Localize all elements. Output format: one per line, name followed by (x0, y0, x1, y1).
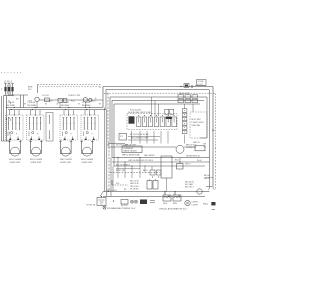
svg-text:OVEN LT: OVEN LT (186, 147, 196, 149)
svg-text:BK-2: BK-2 (175, 160, 179, 162)
svg-text:MROL-BK/W 5GA: MROL-BK/W 5GA (122, 154, 140, 157)
svg-text:BR-3: BR-3 (204, 178, 210, 180)
svg-text:W: W (99, 104, 101, 106)
svg-text:BU-12 W/BK-6: BU-12 W/BK-6 (116, 164, 131, 166)
svg-text:DLB: DLB (163, 203, 168, 205)
svg-text:CLOCK: CLOCK (42, 95, 49, 97)
svg-text:SENSOR R-31: SENSOR R-31 (186, 156, 201, 158)
svg-text:HOT SFC: HOT SFC (192, 119, 202, 121)
svg-text:W-2 R-31 BK: W-2 R-31 BK (116, 144, 129, 146)
svg-text:R-14 W-6 BK: R-14 W-6 BK (130, 109, 142, 111)
svg-text:LOCK: LOCK (198, 84, 204, 86)
svg-text:SURF UNIT: SURF UNIT (81, 162, 93, 164)
svg-text:LATCH SW: LATCH SW (179, 92, 190, 95)
svg-text:BK W R: BK W R (121, 205, 128, 207)
svg-text:W: W (57, 104, 59, 106)
svg-text:240V BK: 240V BK (192, 125, 201, 127)
svg-text:P/N MANUFACTURING 74-X: P/N MANUFACTURING 74-X (107, 207, 136, 210)
svg-text:NOTE 1A: NOTE 1A (87, 203, 96, 206)
svg-text:GRY BK/W: GRY BK/W (144, 155, 155, 157)
svg-text:SURF UNIT: SURF UNIT (60, 162, 72, 164)
svg-text:L1 H-65: L1 H-65 (28, 102, 37, 104)
svg-text:CIRCA 1 ALMGINATION W-3: CIRCA 1 ALMGINATION W-3 (159, 207, 187, 210)
svg-text:L1 N L2: L1 N L2 (4, 82, 13, 84)
svg-text:DLB BK BR OR R W BU: DLB BK BR OR R W BU (128, 112, 152, 114)
svg-text:L1 H-65: L1 H-65 (82, 102, 91, 104)
svg-text:BK R/BK: BK R/BK (28, 105, 37, 107)
svg-text:ELEMENT: ELEMENT (124, 148, 135, 150)
svg-text:BU OR-7: BU OR-7 (185, 187, 194, 189)
svg-text:OVEN LT SW: OVEN LT SW (68, 95, 80, 97)
svg-text:240V 1500W: 240V 1500W (9, 159, 21, 161)
svg-text:R-52 OR: R-52 OR (116, 170, 125, 172)
svg-text:L1 H-65: L1 H-65 (61, 102, 70, 104)
svg-text:240V 1500W: 240V 1500W (81, 159, 93, 161)
svg-text:W-2: W-2 (116, 183, 119, 185)
svg-text:BK P-4 W: BK P-4 W (107, 190, 117, 192)
svg-text:W: W (24, 104, 26, 106)
svg-text:W: W (45, 104, 47, 106)
svg-text:BR-55 W-2: BR-55 W-2 (186, 145, 197, 147)
svg-text:K1 K2 K3 K4 K5 K6: K1 K2 K3 K4 K5 K6 (130, 134, 149, 136)
svg-text:W-19 BK: W-19 BK (130, 188, 139, 190)
svg-text:SURF UNIT: SURF UNIT (30, 162, 42, 164)
svg-text:W: W (78, 104, 80, 106)
svg-text:BAKE 2800W: BAKE 2800W (124, 150, 137, 153)
svg-text:BK R/BK: BK R/BK (61, 105, 70, 107)
svg-text:W: W (204, 147, 206, 149)
svg-text:GRY-7: GRY-7 (185, 164, 191, 166)
svg-text:240V 1500W: 240V 1500W (60, 159, 72, 161)
svg-text:WB-1: WB-1 (203, 203, 209, 205)
svg-text:LIGHT 120V: LIGHT 120V (192, 122, 205, 124)
svg-text:DOOR: DOOR (198, 81, 204, 83)
svg-text:240V 1500W: 240V 1500W (30, 159, 42, 161)
svg-text:W-2: W-2 (28, 89, 31, 91)
svg-text:L1 H-65: L1 H-65 (7, 102, 16, 104)
svg-text:OVEN: OVEN (192, 202, 199, 204)
svg-text:W-44: W-44 (197, 160, 201, 162)
svg-text:BK-50: BK-50 (204, 175, 211, 177)
svg-text:BK R/BK: BK R/BK (7, 105, 16, 107)
svg-text:SURF UNIT: SURF UNIT (9, 162, 21, 164)
svg-text:BK R/BK: BK R/BK (82, 105, 91, 107)
svg-text:BK-9: BK-9 (143, 170, 149, 172)
svg-text:LIGHT: LIGHT (192, 204, 199, 206)
